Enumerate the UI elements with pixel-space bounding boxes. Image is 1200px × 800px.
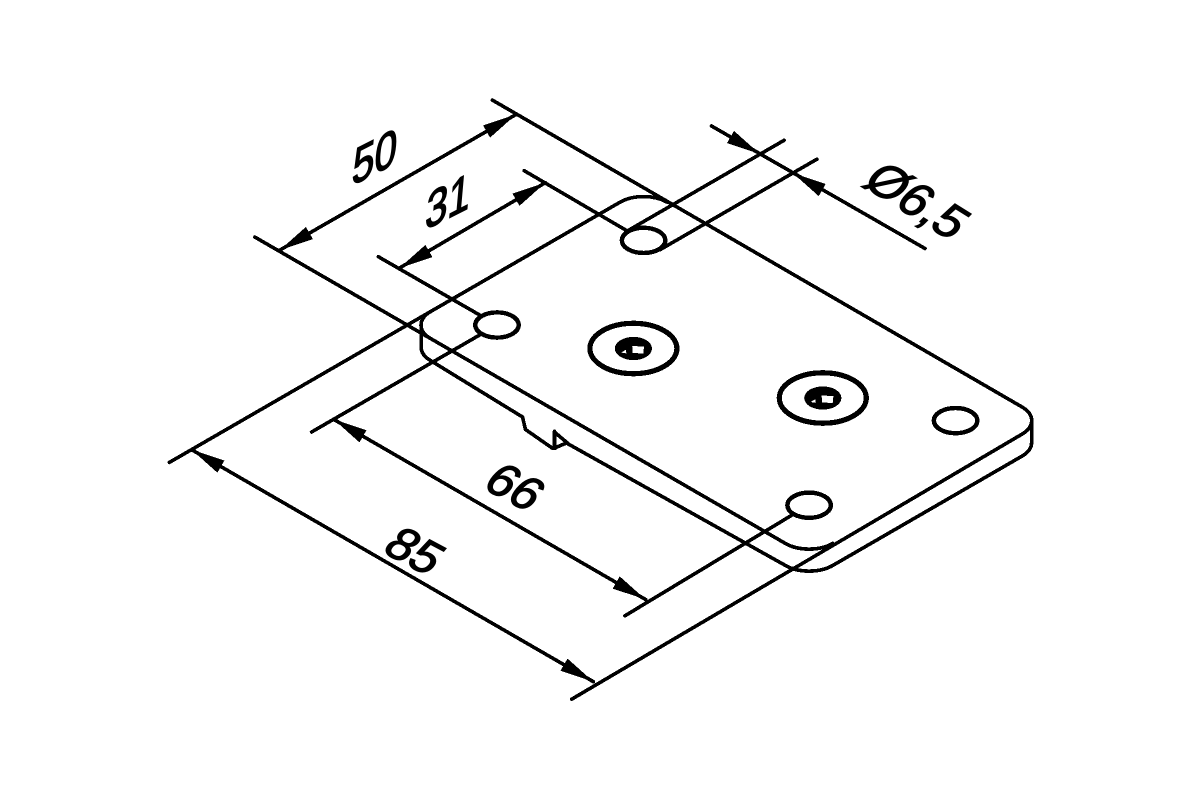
dimension Ø6,5 extension line 2 <box>660 159 817 250</box>
corner hole left (Ø6.5) <box>475 312 518 337</box>
dimension line 66 <box>334 419 646 599</box>
dimension 31 left extension line <box>378 257 480 316</box>
dimension 66 left extension line <box>312 334 481 432</box>
arrowhead 66 left <box>334 419 367 442</box>
arrowhead 31 left <box>400 245 433 268</box>
plate top face: bottom-right edge + 85 right extension line <box>572 434 1022 699</box>
counterbored hole 2 outer <box>779 373 866 423</box>
dimension Ø6,5 extension line 1 <box>627 140 784 231</box>
plate top face: top-left edge + 85 left extension line <box>169 202 620 462</box>
arrowhead 85 right <box>561 659 594 682</box>
plate top face: bottom-left edge + 50 left extension line <box>255 237 786 543</box>
dimension 66 right extension line <box>625 515 793 616</box>
counterbored hole 1 outer <box>590 323 677 373</box>
corner hole bottom (Ø6.5) <box>787 493 830 518</box>
tab end face diagonal <box>556 433 568 443</box>
plate top face: top-right edge + 50 right extension line <box>492 100 1022 407</box>
dimension line 85 <box>192 450 594 682</box>
tab on bottom edge <box>523 417 555 448</box>
plate top face: bottom corner fillet <box>786 544 833 550</box>
plate bottom face: left silhouette vertical <box>419 325 423 347</box>
dimension line Ø6,5 <box>712 126 926 249</box>
dimension 50 extension overshoot handled in edge lines; dimension line 50 <box>280 115 516 251</box>
corner hole top (Ø6.5) <box>622 228 665 253</box>
dimension 31 right extension line <box>524 171 626 231</box>
plate bottom face: left corner fillet lower arc <box>421 347 431 361</box>
plate bottom face: bottom-left lower edge after tab <box>556 443 786 566</box>
arrowhead 50 right <box>483 115 516 138</box>
plate bottom face: right silhouette vertical <box>1030 421 1034 443</box>
corner hole right (Ø6.5) <box>934 408 977 433</box>
arrowhead Ø6,5 upper (points down-right at ext line 1) <box>727 131 760 154</box>
arrowhead 85 left <box>192 450 225 473</box>
counterbore 1 inner socket <box>615 337 652 360</box>
dimension line 31 <box>400 183 546 268</box>
plate bottom face: bottom corner fillet lower arc <box>786 566 833 572</box>
arrowhead Ø6,5 lower (points up-left at ext line 2) <box>793 173 826 196</box>
plate bottom face: right corner fillet lower arc <box>1022 443 1032 457</box>
svg-text:Ø6,5: Ø6,5 <box>853 152 982 249</box>
plate top face: top corner fillet <box>620 197 667 203</box>
plate top face: left corner fillet <box>421 311 431 338</box>
svg-text:66: 66 <box>474 454 556 521</box>
plate bottom face: bottom-right lower edge <box>833 456 1022 565</box>
arrowhead 50 left <box>280 227 313 250</box>
arrowhead 31 right <box>513 183 546 206</box>
arrowhead 66 right <box>613 576 646 599</box>
counterbore 2 inner socket <box>804 386 841 409</box>
plate bottom face: bottom-left lower edge up to tab <box>431 361 523 417</box>
plate top face: right corner fillet <box>1022 407 1032 434</box>
svg-text:85: 85 <box>373 518 455 585</box>
